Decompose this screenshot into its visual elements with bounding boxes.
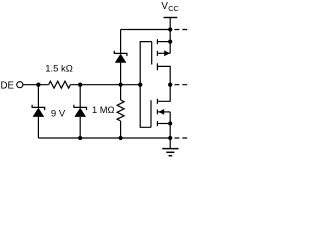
mosfet Q2 channel ticks <box>156 99 158 104</box>
mosfet Q2 source leg <box>157 123 170 125</box>
mosfet Q1 channel ticks <box>156 39 158 44</box>
mosfet Q2 drain leg <box>157 85 170 102</box>
mosfet Q1 gate bar <box>151 42 153 65</box>
node D1 junction dot <box>119 83 123 87</box>
svg-text:1.5 kΩ: 1.5 kΩ <box>45 63 73 74</box>
mosfet Q1 bulk leg with arrow <box>157 52 170 54</box>
wire gate routing lower <box>140 85 151 128</box>
wire top rail <box>121 29 171 31</box>
mosfet Q1 source leg <box>157 66 170 84</box>
node H junction dot <box>119 136 123 140</box>
svg-text:1 MΩ: 1 MΩ <box>92 105 114 115</box>
zener diode D2 9V <box>32 85 45 138</box>
wire bottom rail <box>38 137 170 139</box>
wire zener D1 top stem <box>120 30 122 54</box>
node D junction dot <box>138 83 142 87</box>
zener diode D3 <box>74 85 87 138</box>
wire VCC stem <box>169 18 171 30</box>
node B junction dot <box>78 83 82 87</box>
node I junction dot <box>168 136 172 140</box>
wire gate routing upper <box>140 42 152 85</box>
terminal DE circle <box>17 82 23 88</box>
node DE junction dot <box>36 83 40 87</box>
node F junction dot <box>168 121 172 125</box>
ground symbol <box>162 138 178 156</box>
node E junction dot <box>168 83 172 87</box>
mosfet Q2 gate bar <box>150 100 152 127</box>
node A junction dot <box>168 27 172 31</box>
resistor R2 1M zigzag <box>117 85 124 138</box>
wire source to ground rail <box>169 124 171 139</box>
resistor R1 1.5k zigzag <box>49 81 71 88</box>
wire gate rail <box>70 84 140 86</box>
mosfet Q2 bulk leg with arrow <box>157 111 170 113</box>
svg-text:9 V: 9 V <box>51 109 66 120</box>
power terminal VCC bar <box>164 17 178 19</box>
node G junction dot <box>78 136 82 140</box>
mosfet Q1 drain leg <box>157 41 170 43</box>
wire B2 to bulk <box>169 42 171 54</box>
node B2 junction dot <box>168 40 172 44</box>
dashed continuation mid <box>175 84 188 86</box>
dashed continuation top <box>175 29 188 31</box>
wire A to B2 <box>169 30 171 42</box>
zener diode D1 <box>114 51 127 85</box>
svg-text:CC: CC <box>168 4 179 13</box>
dashed continuation bottom <box>175 137 188 139</box>
label VCC <box>161 1 179 13</box>
wire bulk to source node <box>169 112 171 124</box>
wire DE lead <box>23 84 49 86</box>
svg-text:DE: DE <box>1 80 15 91</box>
